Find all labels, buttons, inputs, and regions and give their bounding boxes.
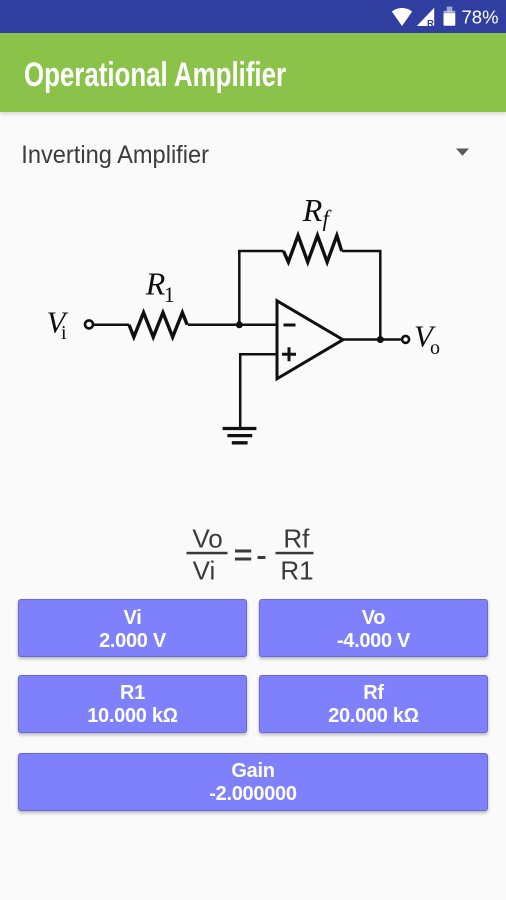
output terminal Vo	[402, 336, 409, 343]
svg-text:f: f	[323, 206, 333, 231]
svg-text:Inverting Amplifier: Inverting Amplifier	[21, 141, 209, 169]
wire output	[343, 338, 402, 341]
wifi icon	[392, 8, 412, 26]
svg-text:R: R	[145, 266, 166, 302]
svg-text:78%: 78%	[462, 7, 499, 28]
label Vi	[47, 304, 69, 344]
label R1	[145, 266, 175, 308]
button Rf	[259, 675, 488, 733]
wire feedback right vertical	[379, 251, 382, 340]
node A junction dot	[236, 321, 243, 328]
equals sign	[235, 550, 251, 553]
status bar	[0, 0, 506, 33]
formula	[150, 512, 356, 602]
ground	[223, 429, 257, 443]
spinner dropdown arrow	[453, 146, 473, 158]
resistor R1	[129, 313, 187, 337]
app bar title	[0, 33, 506, 112]
formula bar right	[276, 552, 314, 555]
svg-text:R: R	[427, 18, 434, 29]
resistor Rf	[284, 236, 342, 263]
label Rf	[302, 192, 333, 231]
wire feedback top left	[238, 250, 283, 253]
svg-text:Operational Amplifier: Operational Amplifier	[24, 57, 286, 94]
wire feedback left vertical	[238, 251, 241, 325]
svg-text:Rf: Rf	[283, 524, 310, 554]
spinner	[0, 130, 300, 175]
button Gain	[18, 753, 488, 811]
wire feedback top right	[342, 250, 382, 253]
minus sign	[258, 556, 266, 559]
button Vi	[18, 599, 247, 657]
label Vo	[414, 318, 440, 359]
svg-text:R1: R1	[280, 556, 313, 586]
wire plus input	[240, 354, 277, 427]
app bar	[0, 33, 506, 112]
formula bar left	[187, 552, 228, 555]
node B output junction dot	[377, 336, 384, 343]
button Vo	[259, 599, 488, 657]
svg-text:1: 1	[164, 282, 175, 307]
op-amp U1	[277, 301, 343, 379]
circuit schematic	[0, 190, 506, 460]
wire R1 to op-amp	[188, 324, 277, 327]
wire input	[93, 324, 129, 327]
input terminal Vi	[85, 320, 93, 328]
svg-text:o: o	[430, 337, 440, 359]
op-amp plus sign	[282, 347, 296, 361]
svg-text:i: i	[61, 322, 67, 344]
svg-text:Vo: Vo	[192, 524, 222, 554]
cellular signal icon	[417, 8, 434, 26]
op-amp minus sign	[284, 324, 296, 327]
svg-text:Vi: Vi	[193, 556, 216, 586]
button R1	[18, 675, 247, 733]
battery icon	[447, 7, 453, 12]
svg-text:R: R	[302, 192, 323, 228]
